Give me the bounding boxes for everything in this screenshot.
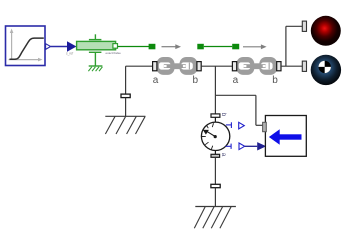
- svg-text:b: b: [193, 75, 199, 86]
- svg-text:b: b: [220, 113, 227, 117]
- body B1 (red sphere mass): [311, 16, 341, 46]
- body B2 (blue sphere point mass): [311, 55, 341, 85]
- red sphere flange connector: [302, 21, 306, 31]
- wire: horizontal to red sphere flange: [286, 25, 302, 27]
- motion direction arrow 2 (gray): [243, 44, 267, 49]
- motion direction arrow 1 (gray): [162, 44, 182, 49]
- fixed anchor F1 (small white rect): [121, 94, 130, 98]
- chain K1 flange_b connector: [197, 62, 201, 71]
- actuator flange_b connector (white square): [113, 44, 118, 49]
- ground G3 (bottom): [194, 207, 236, 229]
- svg-text:a: a: [220, 153, 227, 157]
- wire: source to actuator input: [51, 46, 67, 48]
- actuator support wire to ground: [94, 52, 96, 66]
- node square 2 (green flange connection): [197, 44, 204, 50]
- wire: vertical up to red sphere branch: [285, 26, 287, 66]
- wire: green rod between node squares: [204, 46, 232, 48]
- wire: branch vertical down: [255, 95, 257, 125]
- source block U1 (tanh signal source): [6, 26, 46, 66]
- svg-text:a: a: [233, 75, 239, 86]
- wire: anchor to ground: [214, 188, 216, 207]
- sensor output pin f (bottom): [226, 143, 245, 150]
- blue sphere flange connector: [302, 61, 306, 71]
- sensor output pin f (top): [226, 122, 244, 129]
- position actuator (green component): [77, 34, 116, 52]
- wire: actuator flange to node square 1 (green): [118, 46, 150, 48]
- wire: anchor to ground: [125, 98, 127, 117]
- chain K1 flange_a connector: [153, 62, 157, 71]
- wire: chain K1 b to chain K2 a: [201, 65, 232, 67]
- signal wire: sensor to force input: [245, 145, 258, 147]
- sensor S1 flange_b connector (top): [211, 114, 220, 117]
- chain K2 flange_a connector: [232, 62, 236, 71]
- wire: left branch vertical down: [125, 66, 127, 94]
- svg-text:exact=false: exact=false: [106, 51, 122, 55]
- svg-text:a: a: [153, 75, 159, 86]
- svg-text:b: b: [272, 75, 278, 86]
- chain component K1: [157, 57, 198, 75]
- svg-text:s_ref: s_ref: [66, 52, 73, 56]
- chain K2 flange_b connector: [277, 62, 281, 71]
- wire: sensor flange_a down: [214, 157, 216, 184]
- source block output pin (triangle connector): [46, 44, 51, 50]
- force source support connector (gray rect): [263, 122, 267, 131]
- ground G2 (left): [105, 116, 145, 134]
- force input connector (filled blue triangle): [257, 142, 266, 150]
- ground G1 (green, actuator support): [88, 66, 102, 71]
- actuator input connector (filled blue triangle): [67, 41, 77, 51]
- wire: branch to force box support: [215, 94, 256, 96]
- node square 1 (green flange connection): [149, 44, 156, 50]
- wire: branch into support connector: [256, 124, 263, 126]
- sensor S1 flange_a connector (bottom): [211, 154, 220, 157]
- fixed anchor F2 (small white rect): [211, 184, 220, 187]
- force source FS1 (box with blue arrow): [265, 116, 306, 157]
- node junction vertical wire to sensor: [214, 66, 216, 114]
- wire: left branch horizontal to chain1 flange_a: [126, 65, 153, 67]
- wire: chain K2 b to blue sphere flange: [281, 65, 302, 67]
- chain component K2: [236, 57, 277, 75]
- sensor S1 gauge body: [201, 117, 229, 154]
- node square 3 (green flange connection): [232, 44, 239, 50]
